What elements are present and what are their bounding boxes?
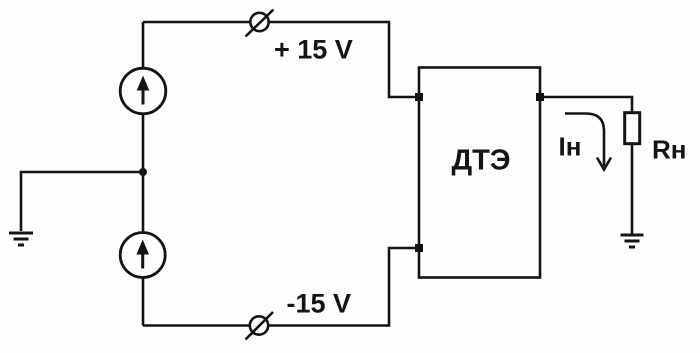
resistor RH xyxy=(625,113,640,144)
svg-text:-15 V: -15 V xyxy=(287,289,352,319)
wire resistor to ground xyxy=(631,144,634,234)
current source I1 xyxy=(120,68,166,114)
wire ground branch xyxy=(21,172,143,231)
svg-text:Iн: Iн xyxy=(559,132,582,162)
block U1 DTE xyxy=(419,68,540,278)
wire DTE output to load xyxy=(540,97,632,113)
pin square U1 left top xyxy=(415,93,423,101)
current arrow IH xyxy=(565,114,611,170)
pin square U1 right xyxy=(536,93,544,101)
node junction xyxy=(139,168,147,176)
ground left xyxy=(9,233,33,245)
svg-text:+ 15 V: + 15 V xyxy=(274,35,353,65)
terminal X2 (-15V) xyxy=(246,312,274,340)
svg-text:Rн: Rн xyxy=(652,135,686,165)
ground right xyxy=(621,235,644,247)
current source I2 xyxy=(120,233,165,278)
terminal X1 (+15V) xyxy=(246,10,274,37)
svg-text:ДТЭ: ДТЭ xyxy=(452,145,511,177)
wire bottom rail xyxy=(143,248,419,326)
wire top rail xyxy=(143,22,419,97)
wire left rail xyxy=(142,22,145,326)
pin square U1 left bottom xyxy=(415,244,423,252)
